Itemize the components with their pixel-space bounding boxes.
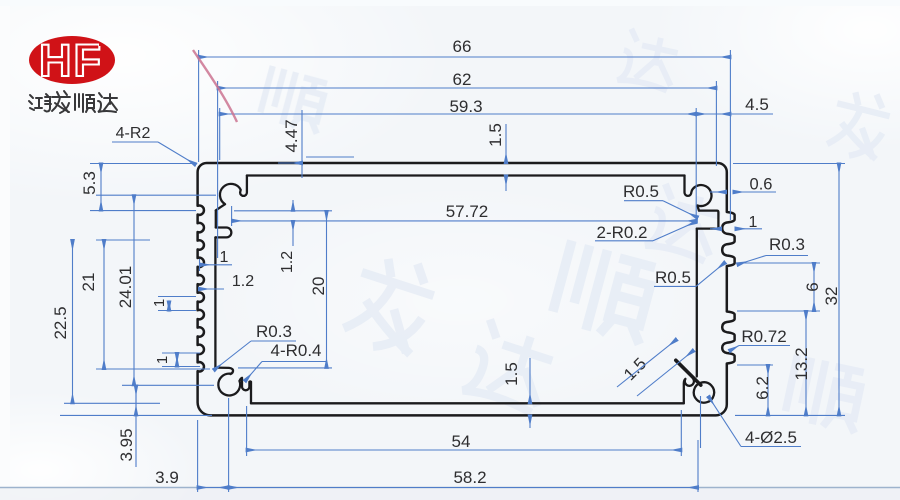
svg-text:1.5: 1.5: [486, 123, 505, 147]
bottom-right hook cup: [684, 378, 695, 403]
svg-text:4.47: 4.47: [282, 119, 301, 152]
dim 1 ripple: [710, 228, 721, 230]
bottom inner surface: [251, 402, 684, 404]
bottom-left hook cup: [240, 378, 252, 404]
svg-text:R0.72: R0.72: [741, 327, 786, 346]
svg-text:R0.5: R0.5: [655, 268, 691, 287]
dim 59.3: [220, 113, 697, 115]
svg-text:1: 1: [220, 249, 229, 266]
svg-text:6.2: 6.2: [753, 376, 772, 400]
bottom-left screw boss: [218, 374, 240, 396]
svg-text:6: 6: [803, 282, 822, 291]
dim 58.2 extensions: [197, 420, 199, 492]
svg-text:4-R2: 4-R2: [116, 125, 151, 142]
svg-text:57.72: 57.72: [446, 202, 489, 221]
svg-text:62: 62: [453, 70, 472, 89]
left wall face upper: [215, 210, 217, 227]
svg-text:2-R0.2: 2-R0.2: [596, 223, 647, 242]
dim 0.6: [710, 191, 726, 193]
svg-text:1: 1: [154, 356, 171, 364]
corner slit: [676, 360, 701, 385]
svg-text:21: 21: [79, 273, 98, 292]
dim 58.2: [229, 487, 698, 489]
dim 66: [199, 56, 731, 58]
dim 5.3 extensions: [90, 163, 196, 165]
svg-text:24.01: 24.01: [116, 266, 135, 309]
svg-text:R0.3: R0.3: [256, 322, 292, 341]
svg-text:4.5: 4.5: [745, 95, 769, 114]
svg-text:5.3: 5.3: [80, 171, 99, 195]
dim 1.5 bottom wall: [529, 358, 531, 403]
dim 24.01: [133, 195, 135, 385]
svg-text:3.9: 3.9: [155, 468, 179, 487]
svg-text:13.2: 13.2: [792, 347, 811, 380]
dim 62: [218, 87, 717, 89]
dim 3.9 bottom: [198, 487, 229, 489]
dim 4.47 extension line: [301, 110, 303, 178]
svg-text:22.5: 22.5: [51, 306, 70, 339]
faint watermark characters: [259, 28, 894, 433]
dim 32: [838, 164, 840, 416]
svg-text:3.95: 3.95: [117, 428, 136, 461]
svg-text:59.3: 59.3: [449, 97, 482, 116]
svg-text:1: 1: [151, 299, 168, 307]
dim 6: [813, 263, 815, 311]
red pen mark: [193, 50, 237, 122]
dim 5.3: [100, 164, 102, 211]
dim 54 extensions: [246, 406, 248, 456]
right wall face lower: [696, 229, 698, 377]
svg-text:58.2: 58.2: [453, 468, 486, 487]
dim 4.5: [696, 113, 730, 115]
dim 59.3 extension lines: [219, 108, 221, 160]
svg-text:1.5: 1.5: [502, 362, 521, 386]
top-right screw boss: [685, 176, 712, 211]
svg-text:66: 66: [453, 37, 472, 56]
dim 20: [326, 211, 328, 368]
aluminium profile outer outline: [198, 163, 735, 415]
company name characters: [29, 91, 117, 113]
svg-text:54: 54: [452, 432, 471, 451]
svg-text:20: 20: [309, 277, 328, 296]
bottom-right screw hole: [694, 382, 714, 402]
bottom-left boss upper lip: [215, 368, 233, 375]
dim 1.2 rib slot: [292, 200, 294, 211]
dim 54: [247, 449, 682, 451]
bottom rule line: [0, 488, 900, 500]
svg-text:R0.5: R0.5: [623, 182, 659, 201]
svg-text:1.2: 1.2: [232, 273, 254, 290]
dim 3.95: [135, 385, 137, 467]
svg-text:HF: HF: [39, 35, 103, 86]
dim 62 extension lines: [217, 81, 219, 258]
top-left screw boss: [216, 176, 247, 211]
dim 6.2: [767, 365, 769, 415]
left wall face lower: [214, 237, 216, 367]
svg-text:1: 1: [749, 214, 758, 231]
svg-text:4-Ø2.5: 4-Ø2.5: [745, 428, 797, 447]
company logo HF ellipse: [29, 36, 115, 84]
top inner surface: [247, 174, 685, 176]
left tab rail: [215, 228, 231, 238]
svg-text:4-R0.4: 4-R0.4: [270, 341, 321, 360]
svg-text:R0.3: R0.3: [769, 235, 805, 254]
svg-text:0.6: 0.6: [750, 176, 773, 194]
dim 13.2: [805, 311, 807, 415]
dim 21: [103, 240, 105, 369]
svg-text:32: 32: [822, 287, 841, 306]
right groove slot: [697, 211, 719, 229]
dim 4.47: [278, 162, 302, 164]
dim 57.72: [232, 220, 697, 222]
dim 66 extension lines: [198, 50, 200, 162]
dim 1.5 top wall: [505, 124, 507, 163]
dim 22.5: [72, 240, 74, 403]
svg-text:1.2: 1.2: [279, 251, 296, 273]
